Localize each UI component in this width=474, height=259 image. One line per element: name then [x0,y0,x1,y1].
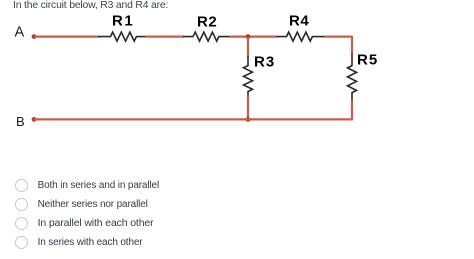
option 3 radio [15,217,153,230]
resistor R4 [277,32,325,41]
wire R5 to bottom-right corner [351,101,353,121]
wire R3 to bottom junction [247,96,249,120]
wire R4 to top-right corner [325,35,353,37]
svg-text:R3: R3 [254,54,275,71]
svg-text:R5: R5 [357,52,378,69]
resistor R2 [183,32,230,41]
question title [13,0,168,11]
wire R2 to junction and R4 [230,35,278,37]
svg-text:B: B [16,114,25,129]
resistor R5 (vertical) [348,53,357,101]
junction node dot (top of R3) [246,34,251,39]
svg-text:A: A [15,25,25,41]
resistor R3 (vertical) [244,56,253,97]
svg-text:R1: R1 [112,13,134,30]
label R5 [357,52,378,69]
node A dot [32,34,37,39]
resistor R1 [98,32,146,41]
option 1 radio [15,179,159,192]
bottom wire B to right corner [34,118,353,120]
label R3 [254,54,275,71]
label R4 [289,13,309,30]
label R1 [112,13,134,30]
svg-text:R2: R2 [197,14,217,31]
wire junction down to R3 [247,37,249,57]
svg-text:R4: R4 [289,13,309,30]
wire A to R1 [34,35,99,37]
label R2 [197,14,217,31]
junction node dot (bottom of R3) [246,117,251,122]
node B label [16,114,25,129]
wire R1 to R2 [146,35,185,37]
wire top-right corner down to R5 [351,36,353,54]
node A label [15,25,25,41]
node B dot [32,117,37,122]
option 4 radio [15,236,142,249]
option 2 radio [15,198,148,211]
